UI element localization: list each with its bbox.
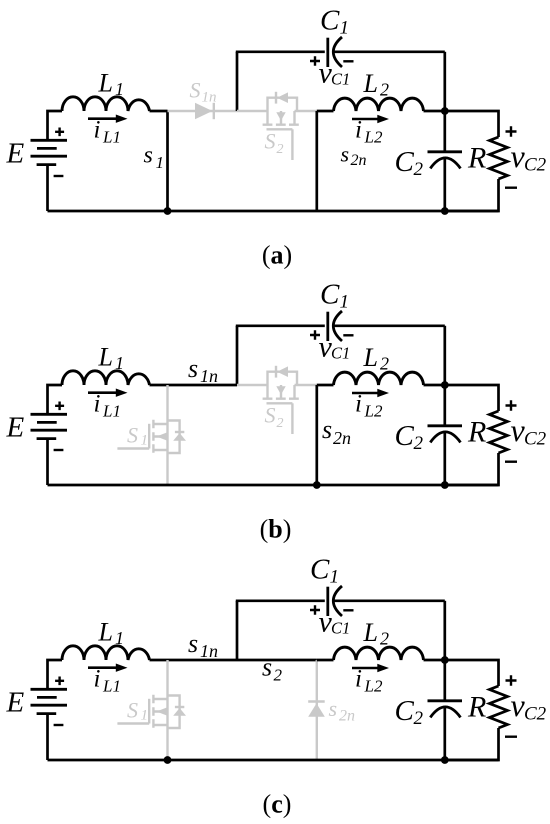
svg-text:s: s	[188, 629, 198, 658]
svg-text:1: 1	[156, 153, 165, 172]
transistor S2 (MOSFET, off) drain wire (b)	[237, 384, 268, 386]
svg-text:S: S	[265, 403, 276, 428]
capacitor C1 curved plate (b)	[333, 311, 342, 341]
svg-text:C1: C1	[331, 70, 350, 89]
battery plus sign (a)	[55, 128, 64, 137]
transistor S2 body-diode triangle (b)	[277, 366, 288, 377]
svg-text:C2: C2	[524, 155, 547, 176]
switch s2n closed (vertical wire) (b)	[315, 385, 318, 485]
svg-text:C: C	[395, 420, 415, 452]
junction output node bottom (c)	[441, 756, 449, 764]
C1 plus sign (b)	[310, 330, 320, 339]
svg-text:L: L	[363, 618, 378, 647]
transistor S1 body-diode loop (c)	[168, 696, 180, 729]
svg-text:L: L	[363, 343, 378, 372]
wire node2 to L2 (a)	[317, 110, 334, 113]
svg-text:2: 2	[414, 708, 424, 729]
transistor S1 gate lead (b)	[117, 447, 149, 449]
transistor S1 body-diode cathode bar (c)	[175, 706, 184, 708]
wire C1 top left (b)	[236, 324, 325, 327]
diode S2n cathode bar (c)	[308, 700, 325, 702]
label S1 (c)	[127, 697, 148, 723]
capacitor C2 curved plate (b)	[430, 432, 460, 443]
label iL2 (c)	[355, 666, 383, 696]
label C2 (c)	[395, 695, 424, 729]
C1 minus sign (c)	[343, 609, 353, 611]
junction node s1 bottom (a)	[164, 207, 172, 215]
capacitor C2 straight plate (b)	[428, 424, 463, 427]
svg-text:i: i	[355, 391, 362, 418]
current arrow iL2 (a)	[352, 115, 389, 123]
svg-text:L: L	[98, 69, 113, 98]
label C1 (b)	[320, 279, 349, 313]
svg-text:1n: 1n	[200, 366, 218, 386]
transistor S2 body-diode cathode bar (b)	[275, 366, 277, 378]
svg-text:L2: L2	[364, 677, 383, 696]
wire C2 to bottom (c)	[443, 707, 446, 760]
svg-text:C: C	[310, 554, 330, 586]
junction node s2n bottom (b)	[313, 481, 321, 489]
battery E top lead + top-left corner wire (b)	[48, 385, 63, 415]
label L2 (a)	[363, 69, 390, 100]
transistor S1 source arrow (b)	[156, 433, 166, 441]
svg-text:C2: C2	[524, 429, 547, 450]
label C2 (b)	[395, 420, 424, 454]
transistor S1 gate lead (c)	[117, 722, 149, 724]
svg-text:L: L	[98, 618, 113, 647]
svg-text:2n: 2n	[351, 152, 367, 169]
svg-text:C: C	[320, 5, 340, 37]
wire C1 top left (c)	[236, 599, 325, 602]
battery minus sign (c)	[54, 724, 64, 726]
inductor L2 (c)	[334, 647, 424, 660]
transistor S1 channel stubs (b)	[153, 424, 167, 450]
svg-text:(a): (a)	[262, 241, 292, 270]
svg-text:1: 1	[115, 628, 124, 648]
svg-text:L2: L2	[364, 128, 383, 147]
C1 plus sign (c)	[310, 605, 320, 614]
label S2 (a)	[265, 129, 284, 158]
wire C1 branch left vertical (b)	[236, 326, 239, 385]
svg-text:(b): (b)	[260, 515, 292, 544]
label C1 (a)	[320, 5, 349, 39]
label iL1 (c)	[94, 666, 121, 696]
svg-text:L1: L1	[102, 128, 121, 147]
wire C1 branch right vertical (c)	[443, 601, 446, 660]
svg-text:s: s	[144, 143, 153, 169]
wire R to bottom (c)	[445, 728, 499, 760]
svg-text:E: E	[6, 412, 25, 444]
transistor S2 body-diode loop (b)	[268, 372, 298, 385]
label R (b)	[467, 416, 486, 449]
junction output node top (b)	[441, 381, 449, 389]
bottom wire (b)	[48, 484, 499, 487]
label E (a)	[6, 138, 25, 170]
svg-text:C: C	[320, 279, 340, 311]
svg-text:L: L	[98, 343, 113, 372]
transistor S1 (MOSFET, off) drain-source wire (b)	[166, 385, 168, 485]
switch s1 closed (vertical wire) (a)	[166, 111, 169, 211]
label L2 (c)	[363, 618, 390, 649]
wire output node to R (a)	[445, 111, 499, 137]
capacitor C1 straight plate (c)	[326, 587, 329, 616]
battery minus sign (a)	[54, 175, 64, 177]
label vC2 (a)	[511, 138, 547, 176]
label vC2 (c)	[511, 687, 547, 725]
svg-text:i: i	[94, 117, 101, 144]
wire output node to C2 (c)	[443, 660, 446, 701]
transistor S2 body-diode cathode bar (a)	[275, 92, 277, 104]
wire L1 to C1 branch (switch s1n closed) (b)	[150, 384, 238, 387]
wire C1 top right (b)	[334, 324, 445, 327]
label E (b)	[6, 412, 25, 444]
label s1n (c)	[188, 629, 218, 661]
battery minus sign (b)	[54, 449, 64, 451]
wire L1 to L2 branch (switches s1n and s2 closed) (c)	[150, 659, 317, 662]
svg-text:1n: 1n	[200, 641, 218, 661]
battery plus sign (b)	[55, 402, 64, 411]
svg-text:s: s	[329, 696, 338, 721]
transistor S2 gate lead (a)	[291, 129, 293, 160]
inductor L1 (c)	[62, 646, 150, 660]
svg-text:L: L	[363, 69, 378, 98]
transistor S1 body-diode loop (b)	[168, 421, 180, 454]
transistor S2 channel stubs (b)	[268, 385, 295, 398]
transistor S2 gate plate (b)	[267, 402, 293, 404]
svg-text:s: s	[188, 354, 198, 383]
label iL2 (a)	[355, 117, 383, 147]
svg-text:S: S	[127, 697, 138, 722]
svg-text:2: 2	[414, 433, 424, 454]
svg-text:1: 1	[115, 79, 124, 99]
svg-text:L1: L1	[102, 677, 121, 696]
svg-text:2: 2	[414, 159, 424, 180]
transistor S2 channel plate (a)	[263, 123, 299, 125]
svg-text:E: E	[6, 138, 25, 170]
label vC1 (a)	[319, 56, 351, 89]
svg-text:1: 1	[141, 708, 149, 724]
battery E bottom lead (c)	[46, 714, 49, 760]
wire output node to R (b)	[445, 385, 499, 411]
label s2n gray (c)	[329, 696, 356, 725]
svg-text:1: 1	[340, 18, 350, 39]
transistor S1 gate plate (c)	[148, 699, 150, 724]
svg-text:2: 2	[380, 354, 389, 374]
svg-text:C: C	[395, 695, 415, 727]
svg-text:2: 2	[380, 80, 389, 100]
transistor S2 channel stubs (a)	[268, 111, 295, 124]
wire C2 to bottom (b)	[443, 432, 446, 485]
capacitor C2 straight plate (c)	[428, 699, 463, 702]
svg-text:2: 2	[274, 666, 283, 685]
inductor L2 (b)	[334, 372, 424, 385]
junction output node bottom (a)	[441, 207, 449, 215]
label s2n (a)	[341, 142, 367, 170]
svg-text:1: 1	[141, 433, 149, 449]
R plus sign (c)	[506, 675, 517, 686]
wire C1 branch left vertical (c)	[236, 601, 239, 660]
transistor S2 channel plate (b)	[263, 398, 299, 400]
transistor S1 body-diode cathode bar (b)	[175, 431, 184, 433]
R plus sign (a)	[506, 126, 517, 137]
current arrow iL2 (b)	[352, 389, 389, 397]
wire R to bottom (a)	[445, 179, 499, 211]
label C1 (c)	[310, 554, 339, 588]
current arrow iL1 (b)	[88, 389, 128, 397]
label L1 (c)	[98, 618, 125, 649]
label s2 (c)	[262, 653, 283, 685]
wire C1 branch right vertical (a)	[443, 52, 446, 111]
wire C1 top left (a)	[236, 50, 325, 53]
label L2 (b)	[363, 343, 390, 374]
svg-text:R: R	[467, 142, 486, 175]
svg-text:(c): (c)	[263, 790, 292, 819]
resistor R zigzag (c)	[490, 686, 508, 728]
capacitor C1 curved plate (c)	[333, 586, 342, 616]
transistor S2 gate lead (b)	[291, 403, 293, 434]
transistor S2 gate plate (a)	[267, 128, 293, 130]
label E (c)	[6, 687, 25, 719]
transistor S1 gate plate (b)	[148, 424, 150, 449]
diode S1n triangle (a)	[195, 103, 212, 119]
label iL1 (b)	[94, 391, 121, 421]
svg-text:2: 2	[380, 629, 389, 649]
wire output node to C2 (b)	[443, 385, 446, 426]
C1 minus sign (a)	[343, 60, 353, 62]
diode S1n cathode bar (a)	[213, 103, 215, 119]
wire C1 branch left vertical (a)	[236, 52, 239, 111]
wire output node to C2 (a)	[443, 111, 446, 152]
C1 plus sign (a)	[310, 56, 320, 65]
R minus sign (a)	[505, 186, 517, 188]
label R (a)	[467, 142, 486, 175]
battery E plates (c)	[31, 689, 68, 713]
svg-text:s: s	[341, 142, 350, 167]
capacitor C2 straight plate (a)	[428, 150, 463, 153]
wire C2 to bottom (a)	[443, 158, 446, 211]
wire C1 top right (a)	[334, 50, 445, 53]
current arrow iL1 (a)	[88, 115, 128, 123]
label s2n (b)	[322, 415, 351, 448]
transistor S1 (MOSFET, off) drain-source wire (c)	[166, 660, 168, 760]
transistor S2 source wire (b)	[295, 384, 317, 386]
wire node2 to L2 (b)	[317, 384, 334, 387]
transistor S1 channel plate (c)	[152, 695, 154, 728]
svg-text:L2: L2	[364, 402, 383, 421]
svg-text:i: i	[94, 666, 101, 693]
transistor S2 body-diode loop (a)	[268, 98, 298, 111]
diode S2n (off) wire (c)	[316, 660, 318, 760]
svg-text:1: 1	[330, 567, 340, 588]
svg-text:C1: C1	[331, 344, 350, 363]
diode S2n triangle (c)	[308, 703, 325, 716]
svg-text:2n: 2n	[339, 708, 355, 725]
label s1n (b)	[188, 354, 218, 386]
label S1 (b)	[127, 422, 148, 448]
wire L1 to node s1 (a)	[150, 110, 168, 113]
wire L2 to output node (a)	[424, 110, 445, 113]
svg-text:R: R	[467, 691, 486, 724]
svg-text:E: E	[6, 687, 25, 719]
junction output node bottom (b)	[441, 481, 449, 489]
capacitor C2 curved plate (c)	[430, 707, 460, 718]
bottom wire (a)	[48, 210, 499, 213]
inductor L1 (b)	[62, 371, 150, 385]
junction output node top (a)	[441, 107, 449, 115]
label S1n (a)	[190, 78, 217, 106]
bottom wire (c)	[48, 759, 499, 762]
wire C1 branch right vertical (b)	[443, 326, 446, 385]
junction node s1 bottom (c)	[164, 756, 172, 764]
svg-text:i: i	[94, 391, 101, 418]
transistor S2 body-diode triangle (a)	[277, 92, 288, 103]
capacitor C2 curved plate (a)	[430, 158, 460, 169]
transistor S1 body-diode triangle (b)	[173, 433, 186, 441]
capacitor C1 straight plate (b)	[326, 312, 329, 341]
svg-text:1n: 1n	[202, 90, 217, 106]
switch s2n closed (vertical wire) (a)	[315, 111, 318, 211]
wire L2 to output node (b)	[424, 384, 445, 387]
svg-text:s: s	[262, 653, 272, 682]
inductor L1 (a)	[62, 97, 150, 111]
svg-text:2n: 2n	[333, 428, 351, 448]
transistor S1 body-diode triangle (c)	[173, 708, 186, 716]
svg-text:S: S	[265, 129, 276, 154]
inductor L2 (a)	[334, 98, 424, 111]
label L1 (b)	[98, 343, 125, 374]
svg-text:i: i	[355, 666, 362, 693]
transistor S2 source arrow (a)	[276, 112, 285, 120]
wire C1 top right (c)	[334, 599, 445, 602]
label vC1 (c)	[319, 605, 351, 638]
R plus sign (b)	[506, 400, 517, 411]
label vC1 (b)	[319, 330, 351, 363]
label S2 (b)	[265, 403, 284, 432]
current arrow iL2 (c)	[352, 664, 389, 672]
battery E bottom lead (b)	[46, 439, 49, 485]
battery plus sign (c)	[55, 677, 64, 686]
resistor R zigzag (a)	[490, 137, 508, 179]
transistor S1 source arrow (c)	[156, 708, 166, 716]
svg-text:2: 2	[277, 416, 284, 431]
svg-text:s: s	[322, 415, 332, 444]
svg-text:L1: L1	[102, 402, 121, 421]
svg-text:2: 2	[277, 142, 284, 157]
resistor R zigzag (b)	[490, 411, 508, 453]
junction output node top (c)	[441, 656, 449, 664]
svg-text:1: 1	[115, 353, 124, 373]
battery E top lead + top-left corner wire (a)	[48, 111, 63, 141]
svg-text:S: S	[127, 422, 138, 447]
label iL2 (b)	[355, 391, 383, 421]
transistor S2 (MOSFET, off) drain wire (a)	[237, 110, 268, 112]
label vC2 (b)	[511, 412, 547, 450]
label iL1 (a)	[94, 117, 121, 147]
capacitor C1 curved plate (a)	[333, 37, 342, 67]
transistor S2 source arrow (b)	[276, 386, 285, 394]
transistor S1 channel plate (b)	[152, 420, 154, 453]
C1 minus sign (b)	[343, 334, 353, 336]
R minus sign (b)	[505, 461, 517, 463]
svg-text:R: R	[467, 416, 486, 449]
svg-text:C: C	[395, 146, 415, 178]
wire output node to R (c)	[445, 660, 499, 686]
wire L2 to output node (c)	[424, 659, 445, 662]
label R (c)	[467, 691, 486, 724]
wire node2 to L2 (c)	[317, 659, 334, 662]
battery E plates (a)	[31, 140, 68, 164]
transistor S2 source wire (a)	[295, 110, 317, 112]
label s1 (a)	[144, 143, 165, 173]
svg-text:i: i	[355, 117, 362, 144]
svg-text:1: 1	[340, 292, 350, 313]
svg-text:C2: C2	[524, 704, 547, 725]
svg-text:C1: C1	[331, 619, 350, 638]
battery E top lead + top-left corner wire (c)	[48, 660, 63, 690]
wire R to bottom (b)	[445, 453, 499, 485]
diode S1n (off) wire (a)	[168, 110, 238, 112]
capacitor C1 straight plate (a)	[326, 38, 329, 67]
battery E bottom lead (a)	[46, 165, 49, 211]
current arrow iL1 (c)	[88, 664, 128, 672]
label C2 (a)	[395, 146, 424, 180]
R minus sign (c)	[505, 736, 517, 738]
transistor S1 channel stubs (c)	[153, 699, 167, 725]
label L1 (a)	[98, 69, 125, 100]
battery E plates (b)	[31, 414, 68, 438]
svg-text:S: S	[190, 78, 201, 103]
